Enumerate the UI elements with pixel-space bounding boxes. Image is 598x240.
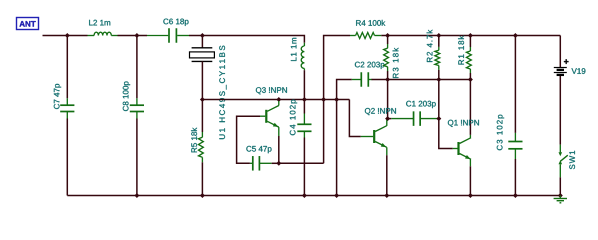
wire: top right rail [381,35,560,37]
switch SW1 [559,145,561,153]
wire: switch to bottom rail [559,177,561,195]
wire [118,35,137,37]
node: Q1 emitter bottom [468,193,473,198]
inductor L1 value 1m [303,43,305,46]
node: crystal column / feedback wire junction [200,97,205,102]
wire: top rail corner down to battery [559,35,561,37]
node: C4 bottom [302,193,307,198]
node: junction C7/top rail [65,33,70,38]
node: junction C8/top rail [134,33,139,38]
wire: R3 column down to Q2 collector node [387,80,389,119]
wire: Q3 collector to feedback wire [278,101,280,106]
node: Q2 emitter bottom [384,193,389,198]
node: R3 bottom / C2 wire [385,77,390,82]
node: Q2 collector / C1 wire junction [385,116,390,121]
ground [559,196,561,199]
wire: Q3 emitter down [278,127,280,136]
wire: top-left rail from antenna to L1 corner [43,35,68,37]
wire: Q2 base lead [361,136,373,138]
wire: Q1 collector up [469,135,471,138]
wire: Q2 collector to C1 node [386,120,388,126]
resistor R3 value 18k [387,36,389,45]
crystal U1 HC49S_CY11BS [201,36,203,48]
node: junction crystal/top rail [200,33,205,38]
wire: Q2 base drop column [349,100,360,137]
wire [189,35,202,37]
transistor Q1 !NPN [448,120,479,127]
wire: R1 column down to Q1 collector [469,80,471,135]
node: R2 top [436,33,441,38]
capacitor C6 value 18p [147,35,168,37]
wire: C2 row to R2, R1 [388,79,471,81]
node: C1 right / R2 column junction [436,116,441,121]
node: R1 bottom [468,77,473,82]
resistor R1 value 18k [469,36,471,48]
wire: battery to switch [559,76,561,145]
wire: Q1 base lead [453,148,458,150]
wire: bottom rail [67,195,560,197]
wire: feedback wire from crystal to Q2 base drop [202,99,349,101]
battery V19 [564,59,569,64]
node: Q3 emitter / C5 wire junction [276,161,281,166]
wire: C2 left column from feedback wire up to C2 wire [337,80,352,100]
node: R5 bottom [200,193,205,198]
capacitor C8 value 100p [136,36,138,99]
resistor R2 value 4.7k [438,36,440,47]
capacitor C1 value 203p [388,118,392,120]
transistor Q3 !NPN [256,87,287,94]
transistor Q2 !NPN [365,108,396,115]
wire: Q2 emitter down to bottom rail [386,147,388,155]
wire: C2 column down to bottom rail [336,100,338,196]
inductor L2 value 1m [88,35,95,37]
capacitor C5 value 47p [250,162,253,164]
node: C2 column on feedback wire [334,97,339,102]
wire: Vcc drop column up to right rail corner [324,36,350,164]
capacitor C7 value 47p [66,36,68,99]
resistor R5 value 18k [201,100,203,133]
wire: Q1 emitter down to bottom rail [469,159,471,166]
capacitor C4 value 102p [303,100,305,114]
node: R3 top [385,33,390,38]
wire: R2 column down through C1 node to Q1 base corner [438,80,440,119]
wire: top rail to L1 corner, turns down [202,36,304,43]
node: L1/C4 column on feedback wire [302,97,307,102]
node: ground junction [558,193,563,198]
node: C3 bottom [513,193,518,198]
node: C2 column bottom [334,193,339,198]
ANT port label box [17,18,39,30]
node: C8 bottom [134,193,139,198]
capacitor C2 value 203p [352,79,362,81]
node: R1 top [468,33,473,38]
node: R2 bottom [436,77,441,82]
resistor R4 value 100k [350,35,356,37]
capacitor C3 value 102p [514,36,516,133]
node: Q3 collector on feedback wire [276,97,281,102]
node: Vcc drop column on feedback wire [321,97,326,102]
node: C3 top [513,33,518,38]
wire [137,35,147,37]
wire: Q3 base loop [260,115,265,117]
wire [67,35,87,37]
wire: emitter wire to Vcc drop column [279,162,324,164]
